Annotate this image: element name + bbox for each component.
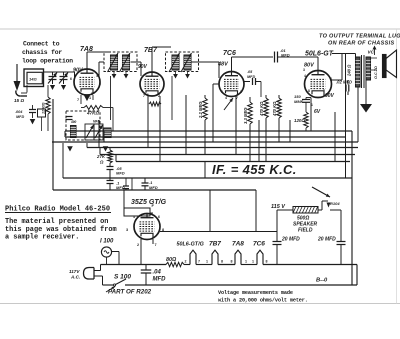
- svg-text:4: 4: [96, 74, 98, 78]
- svg-text:4: 4: [133, 215, 135, 219]
- svg-text:50L6-GT: 50L6-GT: [305, 51, 334, 58]
- svg-text:FIELD: FIELD: [298, 228, 313, 234]
- svg-text:6: 6: [158, 215, 160, 219]
- svg-text:2: 2: [158, 94, 160, 98]
- svg-text:Voltage measurements made: Voltage measurements made: [218, 290, 293, 296]
- svg-text:14Ω: 14Ω: [29, 77, 37, 82]
- svg-text:Ω: Ω: [20, 98, 25, 103]
- svg-text:MFD: MFD: [116, 171, 125, 176]
- svg-text:80Ω: 80Ω: [166, 257, 177, 263]
- svg-text:B--0: B--0: [316, 278, 328, 284]
- svg-text:5: 5: [99, 82, 101, 86]
- svg-text:MFD: MFD: [149, 185, 158, 190]
- svg-text:20 MFD: 20 MFD: [317, 237, 336, 243]
- svg-text:TO OUTPUT TERMINAL LUG: TO OUTPUT TERMINAL LUG: [319, 34, 400, 40]
- svg-text:4: 4: [225, 96, 227, 100]
- svg-text:1: 1: [311, 103, 313, 107]
- svg-text:S 100: S 100: [114, 274, 131, 281]
- svg-text:Ω: Ω: [99, 160, 104, 165]
- svg-text:Connect to: Connect to: [23, 41, 60, 48]
- svg-text:1: 1: [89, 96, 91, 100]
- svg-text:8: 8: [308, 89, 310, 93]
- svg-text:470 KΩ: 470 KΩ: [272, 101, 277, 117]
- svg-text:The material presented on: The material presented on: [5, 218, 108, 226]
- svg-text:1: 1: [240, 90, 242, 94]
- svg-text:O.C.7Ω: O.C.7Ω: [374, 66, 378, 79]
- svg-text:with a 20,000 ohms/volt meter.: with a 20,000 ohms/volt meter.: [218, 298, 308, 304]
- svg-text:15: 15: [14, 98, 20, 103]
- svg-text:chassis for: chassis for: [22, 49, 62, 56]
- svg-text:3.3 MEG: 3.3 MEG: [243, 107, 248, 124]
- svg-text:115 V: 115 V: [271, 204, 286, 210]
- svg-text:I 100: I 100: [100, 239, 114, 245]
- svg-text:IF. = 455 K.C.: IF. = 455 K.C.: [212, 162, 297, 177]
- svg-text:7: 7: [77, 98, 79, 102]
- svg-text:.05: .05: [247, 70, 253, 74]
- svg-text:ON REAR OF CHASSIS: ON REAR OF CHASSIS: [328, 41, 394, 47]
- svg-text:VC: VC: [368, 50, 375, 55]
- svg-text:7: 7: [143, 94, 145, 98]
- svg-text:MFD: MFD: [16, 115, 24, 119]
- svg-text:7A8: 7A8: [232, 241, 244, 248]
- svg-text:90V: 90V: [325, 93, 335, 99]
- svg-text:6V: 6V: [314, 109, 321, 115]
- svg-text:1: 1: [252, 260, 254, 264]
- svg-text:27K: 27K: [96, 154, 106, 159]
- svg-text:3: 3: [303, 68, 305, 72]
- svg-text:6: 6: [221, 90, 223, 94]
- svg-text:2.2 MEG: 2.2 MEG: [198, 101, 203, 119]
- svg-text:8: 8: [266, 260, 268, 264]
- svg-text:1200Ω: 1200Ω: [42, 103, 46, 114]
- svg-text:7: 7: [323, 89, 325, 93]
- svg-text:loop operation: loop operation: [22, 58, 73, 65]
- svg-text:117V: 117V: [69, 269, 80, 274]
- svg-text:MMF: MMF: [294, 99, 304, 104]
- svg-text:7: 7: [198, 260, 200, 264]
- svg-text:.004: .004: [15, 110, 23, 114]
- svg-text:47KΩ: 47KΩ: [86, 111, 99, 116]
- svg-text:50L6-GT/G: 50L6-GT/G: [177, 242, 205, 248]
- svg-text:.04: .04: [153, 270, 162, 276]
- svg-text:120Ω: 120Ω: [294, 118, 305, 123]
- svg-text:3: 3: [126, 228, 128, 232]
- svg-text:MFD: MFD: [247, 75, 255, 79]
- svg-text:4: 4: [304, 74, 306, 78]
- svg-text:6: 6: [70, 77, 72, 81]
- svg-text:1: 1: [147, 93, 149, 97]
- svg-text:470 KΩ: 470 KΩ: [259, 101, 264, 117]
- svg-text:90V: 90V: [138, 64, 148, 70]
- svg-text:7: 7: [155, 243, 157, 247]
- svg-text:80V: 80V: [304, 63, 315, 69]
- svg-text:MFD: MFD: [281, 53, 290, 58]
- svg-text:8: 8: [231, 260, 233, 264]
- svg-text:1: 1: [206, 260, 208, 264]
- svg-text:7C6: 7C6: [253, 241, 265, 248]
- svg-text:2: 2: [137, 243, 139, 247]
- svg-text:7C6: 7C6: [223, 50, 236, 57]
- svg-text:.02 MFD: .02 MFD: [336, 80, 352, 85]
- svg-text:7B7: 7B7: [144, 47, 158, 54]
- svg-text:a sample receiver.: a sample receiver.: [5, 234, 79, 242]
- svg-text:PART OF R202: PART OF R202: [108, 289, 152, 296]
- svg-text:8: 8: [91, 92, 93, 96]
- svg-text:MFD: MFD: [153, 277, 167, 283]
- svg-text:1: 1: [245, 260, 247, 264]
- svg-text:8: 8: [221, 260, 223, 264]
- svg-text:7: 7: [236, 96, 238, 100]
- svg-text:2: 2: [185, 260, 187, 264]
- svg-text:490: 490: [70, 120, 77, 124]
- svg-text:7B7: 7B7: [209, 241, 221, 248]
- svg-text:6: 6: [330, 77, 332, 81]
- svg-text:35Z5 GT/G: 35Z5 GT/G: [131, 199, 167, 206]
- svg-text:240 Ω: 240 Ω: [347, 64, 352, 77]
- svg-text:R104: R104: [330, 201, 340, 206]
- svg-text:A.C.: A.C.: [70, 275, 80, 280]
- svg-text:20 MFD: 20 MFD: [281, 237, 300, 243]
